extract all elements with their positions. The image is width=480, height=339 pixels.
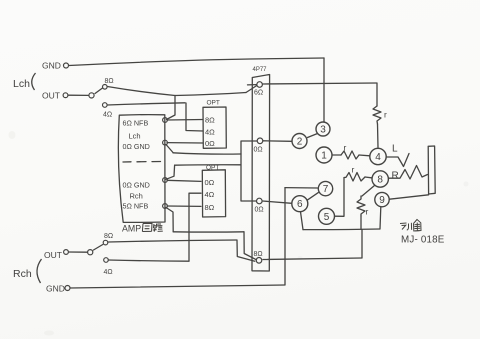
svg-text:8Ω: 8Ω bbox=[205, 116, 215, 125]
svg-text:L: L bbox=[392, 144, 398, 155]
svg-text:Lch: Lch bbox=[13, 78, 30, 90]
svg-text:5Ω NFB: 5Ω NFB bbox=[123, 202, 149, 211]
svg-text:OPT: OPT bbox=[207, 100, 220, 107]
svg-text:6Ω: 6Ω bbox=[254, 90, 263, 97]
svg-text:1: 1 bbox=[321, 151, 327, 162]
svg-text:4Ω: 4Ω bbox=[103, 112, 112, 119]
svg-text:AMP: AMP bbox=[122, 224, 141, 234]
svg-text:6: 6 bbox=[297, 199, 303, 210]
svg-text:0Ω: 0Ω bbox=[205, 178, 215, 187]
svg-text:4Ω: 4Ω bbox=[205, 190, 215, 199]
svg-text:4Ω: 4Ω bbox=[104, 269, 113, 276]
svg-text:2: 2 bbox=[297, 137, 303, 148]
svg-text:Rch: Rch bbox=[13, 268, 32, 280]
svg-text:3: 3 bbox=[320, 125, 326, 136]
svg-text:8Ω: 8Ω bbox=[205, 203, 215, 212]
svg-text:4P77: 4P77 bbox=[253, 67, 268, 73]
svg-text:Rch: Rch bbox=[130, 192, 143, 201]
svg-text:8: 8 bbox=[377, 175, 383, 186]
svg-text:9: 9 bbox=[379, 195, 385, 206]
svg-text:r: r bbox=[344, 143, 347, 153]
svg-text:R: R bbox=[392, 171, 399, 182]
svg-text:7: 7 bbox=[323, 184, 329, 195]
svg-text:0Ω: 0Ω bbox=[205, 139, 215, 148]
svg-text:8Ω: 8Ω bbox=[105, 78, 114, 85]
svg-text:5: 5 bbox=[324, 212, 330, 223]
svg-text:GND: GND bbox=[42, 61, 61, 71]
svg-text:r: r bbox=[384, 110, 387, 120]
svg-text:0Ω GND: 0Ω GND bbox=[123, 142, 150, 151]
svg-text:r: r bbox=[366, 207, 369, 217]
svg-text:6Ω NFB: 6Ω NFB bbox=[123, 119, 149, 128]
svg-text:4: 4 bbox=[375, 152, 381, 163]
svg-text:OPT: OPT bbox=[206, 164, 219, 171]
svg-text:OUT: OUT bbox=[44, 250, 62, 260]
svg-text:OUT: OUT bbox=[42, 91, 60, 101]
svg-text:4Ω: 4Ω bbox=[205, 128, 215, 137]
svg-text:8Ω: 8Ω bbox=[254, 251, 263, 258]
svg-text:0Ω: 0Ω bbox=[255, 207, 264, 214]
svg-text:0Ω GND: 0Ω GND bbox=[123, 181, 150, 190]
svg-text:MJ- 018E: MJ- 018E bbox=[401, 235, 445, 246]
svg-text:r: r bbox=[352, 165, 355, 175]
svg-text:GND: GND bbox=[46, 284, 65, 294]
svg-text:8Ω: 8Ω bbox=[104, 233, 113, 240]
svg-text:0Ω: 0Ω bbox=[254, 147, 263, 154]
svg-text:Lch: Lch bbox=[129, 132, 141, 141]
